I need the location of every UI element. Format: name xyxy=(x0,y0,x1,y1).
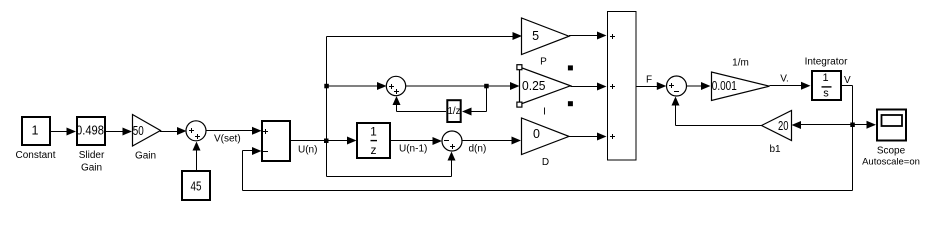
wire b1 output into S6 bottom xyxy=(672,97,762,126)
svg-text:1: 1 xyxy=(32,124,39,138)
unit delay block "1/z" large xyxy=(357,123,390,158)
svg-text:1/m: 1/m xyxy=(732,58,749,69)
wire S6 to 1/m gain xyxy=(687,82,711,90)
wire Constant to Slider Gain xyxy=(50,128,76,136)
svg-text:Gain: Gain xyxy=(81,163,102,174)
svg-text:Scope: Scope xyxy=(877,146,906,157)
slider gain block "0.498" xyxy=(76,117,105,145)
wire junction left into b1 gain xyxy=(792,121,853,129)
wire U(n) branch up to P row xyxy=(327,32,523,141)
constant block "45" xyxy=(182,171,210,200)
junction dot V feedback xyxy=(850,123,855,128)
wire S3 to I gain xyxy=(406,82,520,90)
sum circle S1 (V(set) summer) xyxy=(186,121,206,141)
wire S1 to error sum, node V(set) xyxy=(206,127,262,135)
svg-text:D: D xyxy=(542,157,549,168)
junction dot on branch at I-sum row xyxy=(324,84,329,89)
constant block "1" (Constant) xyxy=(22,117,50,145)
svg-text:P: P xyxy=(540,57,547,68)
label Slider Gain xyxy=(79,150,105,174)
svg-text:z: z xyxy=(371,143,377,157)
gain triangle "5" (P gain) xyxy=(522,18,570,55)
svg-text:F: F xyxy=(646,75,652,86)
svg-text:0: 0 xyxy=(533,127,540,141)
wire Integrator output down and feedback left into S2 minus xyxy=(243,86,853,191)
unit delay block "1/z" small xyxy=(447,100,460,122)
selection handle top-left (open) xyxy=(517,65,522,70)
svg-text:Gain: Gain xyxy=(135,151,156,162)
wire S2 output U(n) to unit delay xyxy=(291,137,357,145)
svg-text:1: 1 xyxy=(822,72,828,84)
wire 45 up into S1 xyxy=(193,142,201,171)
wire 1/m to Integrator, node V. xyxy=(770,82,811,90)
sum block S2 (error subtract rect) xyxy=(262,121,290,161)
svg-text:Constant: Constant xyxy=(15,150,55,161)
wire branch into sum S3 xyxy=(327,82,387,90)
gain triangle "0.25" (I gain, selected) xyxy=(520,67,571,105)
wire D gain to sum S5 xyxy=(569,133,607,141)
junction dot U(n) xyxy=(324,139,329,144)
wire 1/z large to sum S4, node U(n-1) xyxy=(391,137,442,145)
svg-text:Slider: Slider xyxy=(79,150,105,161)
svg-text:20: 20 xyxy=(778,119,789,133)
svg-text:0.25: 0.25 xyxy=(522,79,546,93)
junction dot S3 output xyxy=(484,84,489,89)
wire Gain to sum S1 xyxy=(160,127,187,135)
wire P gain to sum S5 xyxy=(569,32,607,40)
svg-text:d(n): d(n) xyxy=(469,144,487,155)
svg-text:s: s xyxy=(823,88,829,100)
gain triangle "20" (b1, points left) xyxy=(762,111,792,141)
sum circle S4 (difference d(n)) xyxy=(442,131,462,151)
wire 1/z small back into S3 xyxy=(393,96,447,112)
wire branch down into unit delay 1/z small xyxy=(462,86,487,116)
wire S4 to D gain, node d(n) xyxy=(462,137,521,145)
wire U(n) branch down into S4 bottom xyxy=(327,141,456,177)
svg-text:5: 5 xyxy=(532,29,539,43)
svg-text:Integrator: Integrator xyxy=(805,57,848,68)
svg-text:I: I xyxy=(543,107,546,118)
svg-text:b1: b1 xyxy=(769,144,781,155)
svg-text:0.001: 0.001 xyxy=(712,79,737,93)
wire S5 output to sum S6, node F xyxy=(636,82,666,90)
svg-text:0.498: 0.498 xyxy=(76,123,104,137)
wire I gain to sum S5 xyxy=(571,83,607,91)
svg-text:V.: V. xyxy=(780,74,789,85)
selection handle top-right (filled) xyxy=(568,65,573,70)
selection handle bottom-right (filled) xyxy=(568,101,573,106)
integrator block "1/s" xyxy=(812,71,841,100)
selection handle bottom-left (open) xyxy=(517,102,522,107)
svg-text:1: 1 xyxy=(370,124,377,138)
svg-text:45: 45 xyxy=(191,179,202,193)
sum circle S6 (force sum) xyxy=(667,76,687,96)
svg-text:U(n): U(n) xyxy=(298,145,317,156)
svg-text:1/z: 1/z xyxy=(448,106,461,117)
scope block xyxy=(877,110,906,141)
gain triangle "0" (D gain) xyxy=(522,118,570,155)
svg-text:U(n-1): U(n-1) xyxy=(399,144,427,155)
svg-text:50: 50 xyxy=(133,124,144,138)
gain triangle "0.001" (1/m) xyxy=(712,72,770,101)
svg-text:V: V xyxy=(844,75,851,86)
svg-text:V(set): V(set) xyxy=(214,134,241,145)
sum block S5 (PID adder, tall rect) xyxy=(608,12,637,161)
svg-text:Autoscale=on: Autoscale=on xyxy=(862,157,920,168)
wire junction to Scope xyxy=(853,121,877,129)
gain triangle "50" (Gain) xyxy=(133,115,161,147)
sum circle S3 (integrator accumulator) xyxy=(386,76,405,95)
wire Slider Gain to Gain xyxy=(105,128,132,136)
